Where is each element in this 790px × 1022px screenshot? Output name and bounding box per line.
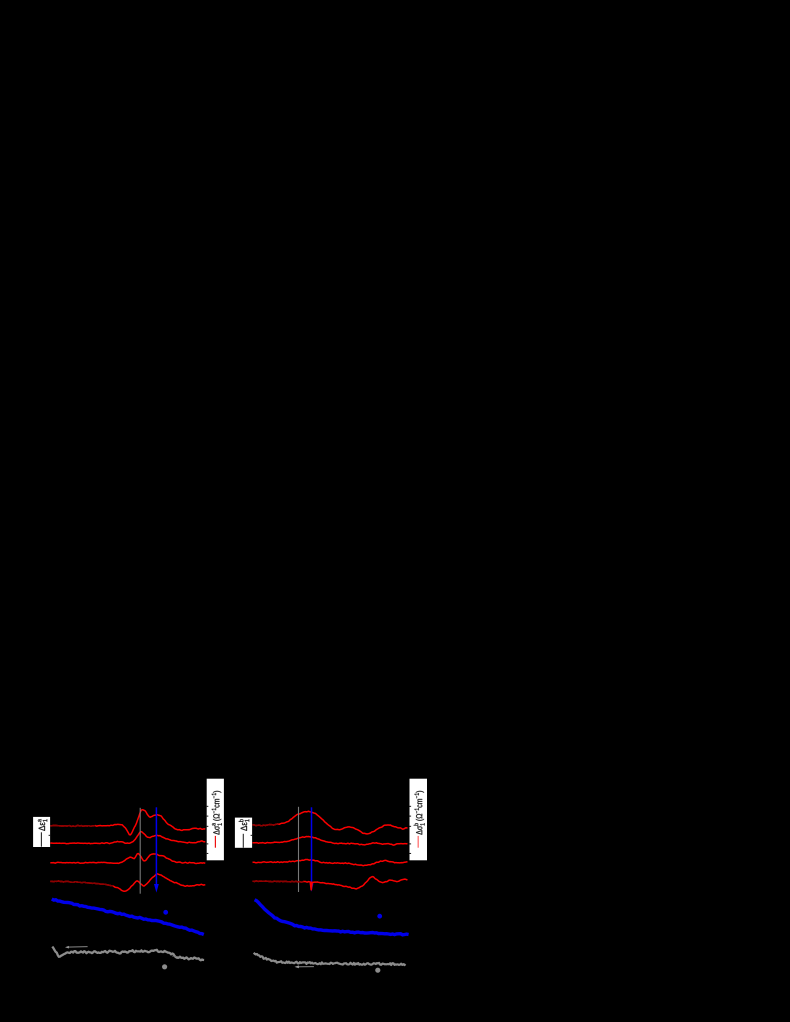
axis ticks on A-right box edge xyxy=(207,805,209,807)
dark-red left segment of A1 xyxy=(50,825,95,826)
gray noisy curve, panel B xyxy=(254,953,406,965)
faint gray segment, panel A xyxy=(172,955,180,958)
gray dot, panel B xyxy=(375,968,380,973)
dark-red left segment of B1 xyxy=(253,824,279,826)
blue dot, panel B xyxy=(377,914,382,919)
red curve B1 xyxy=(253,811,408,834)
dark-red left segment of B4 xyxy=(253,881,304,882)
red spike of B4 over blue arrow xyxy=(310,882,312,890)
axis tick on B-left box edge xyxy=(251,834,253,836)
red curve B4 with down-spike xyxy=(253,877,408,889)
blue scatter curve, panel B xyxy=(255,900,409,935)
red curve A3 xyxy=(50,854,205,864)
blue vertical arrow, panel A xyxy=(155,807,157,885)
thin gray left arrow, panel A xyxy=(68,946,87,948)
gray noisy curve, panel A xyxy=(52,947,204,961)
red curve A4 xyxy=(50,874,205,891)
legend box A-left (delta epsilon 1 a) xyxy=(33,817,50,847)
axis ticks on B-right box edge xyxy=(410,805,412,807)
red curve A2 xyxy=(50,832,205,844)
gray vertical marker line, panel B xyxy=(298,807,300,892)
blue dot, panel A xyxy=(163,910,168,915)
blue vertical arrow, panel B xyxy=(311,807,313,884)
gray vertical marker line, panel A xyxy=(139,808,141,894)
legend box B-right (delta sigma 1 b) xyxy=(410,779,428,861)
dark-red left segment of A4 xyxy=(50,881,113,886)
red curve B2 xyxy=(253,837,408,846)
axis tick on A-left box edge xyxy=(49,834,51,836)
red curve A1 xyxy=(50,810,205,835)
legend box A-right (delta sigma 1 a) xyxy=(207,779,224,861)
thin gray left arrow, panel B xyxy=(298,966,314,968)
red curve B3 xyxy=(253,860,408,866)
blue scatter curve, panel A xyxy=(52,899,204,935)
legend box B-left (delta epsilon 1 b) xyxy=(235,818,252,848)
gray dot, panel A xyxy=(162,964,167,969)
